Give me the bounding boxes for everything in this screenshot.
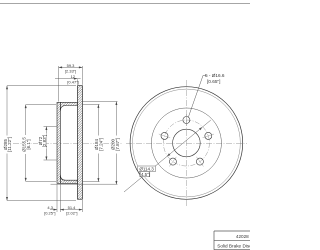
dim C (bore) (44, 127, 57, 161)
bolt holes (161, 117, 212, 166)
mounting flange (57, 102, 60, 183)
PCD label box (138, 166, 156, 172)
svg-text:[6.1"]: [6.1"] (26, 139, 31, 149)
disc friction ring section (hatched bar) (78, 86, 83, 200)
bolt circle (dash-dot) (163, 120, 209, 166)
dim C label (38, 133, 46, 149)
svg-text:5 - Ø16.6: 5 - Ø16.6 (205, 73, 225, 78)
hat lower wall (60, 175, 77, 184)
dim A label (3, 136, 13, 154)
centerlines (185, 80, 187, 207)
svg-text:[0.65"]: [0.65"] (207, 79, 220, 84)
bottom dims 6.3 / 51.4 (50, 185, 82, 213)
svg-text:[2.83"]: [2.83"] (42, 135, 47, 148)
dim 12 (disc thickness) (55, 79, 81, 85)
sheet top border (0, 3, 250, 5)
svg-text:[7.24"]: [7.24"] (98, 138, 103, 151)
chamfer circle (133, 89, 241, 197)
dim D (hat outer) (83, 104, 100, 181)
svg-text:42028: 42028 (236, 234, 249, 239)
dim E label (111, 136, 120, 154)
svg-text:Solid Brake Disc: Solid Brake Disc (217, 243, 250, 248)
svg-text:[2.33"]: [2.33"] (65, 68, 76, 73)
svg-text:Ø114.3: Ø114.3 (139, 167, 154, 172)
top dim 59.3 (overall height) (59, 66, 83, 102)
centerline (section) (3, 142, 122, 144)
center bore (173, 129, 201, 157)
dim D label (94, 136, 103, 154)
svg-text:59.3: 59.3 (67, 63, 76, 68)
svg-text:[2.02"]: [2.02"] (66, 210, 77, 215)
inner friction circle (151, 108, 221, 178)
svg-text:[0.25"]: [0.25"] (44, 210, 55, 215)
svg-text:[11.22"]: [11.22"] (7, 137, 12, 152)
bolt hole ticks (159, 114, 214, 167)
hat upper wall (60, 102, 77, 111)
bolt hole leader (188, 76, 206, 118)
svg-text:[0.47"]: [0.47"] (67, 79, 78, 84)
dim E (hat outer incl fillet) (51, 102, 118, 185)
dim A (outer diameter) (7, 86, 76, 201)
dim B label (22, 135, 31, 154)
outer circle (130, 87, 243, 200)
PCD diametral line (124, 120, 211, 192)
svg-text:[7.87"]: [7.87"] (115, 138, 120, 151)
dim B (hat inner walls) (26, 105, 56, 182)
svg-text:[4.5"]: [4.5"] (140, 172, 150, 177)
